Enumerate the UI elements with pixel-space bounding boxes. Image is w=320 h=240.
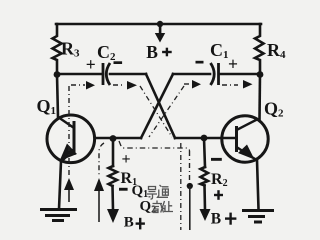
截 — [152, 201, 165, 213]
dashed path horizontal left (to C2) — [71, 84, 125, 86]
wire Q2 base horizontal — [175, 137, 235, 140]
wire C2 right plate to diagonal — [110, 73, 146, 76]
svg-text:R2: R2 — [211, 171, 228, 189]
Q1 emitter arrow — [60, 144, 78, 162]
wire Q2 collector — [258, 74, 261, 119]
capacitor C1 — [211, 63, 219, 85]
svg-text:+: + — [86, 55, 96, 75]
wire C1 left horizontal — [173, 73, 210, 76]
capacitor C2 — [103, 63, 110, 85]
node Q1 base — [110, 135, 117, 142]
wire diagonal C1-to-Q1base — [141, 74, 173, 138]
transistor Q2 — [222, 116, 268, 162]
label R1 minus — [119, 188, 128, 191]
svg-text:B: B — [211, 210, 221, 227]
wire R2 branch upper — [204, 138, 205, 167]
通 — [158, 185, 169, 197]
B+ top arrow — [155, 26, 165, 43]
wire Q1 collector — [57, 75, 58, 117]
导 — [147, 187, 157, 200]
resistor R1 — [109, 166, 118, 186]
wire Q1 emitter down — [59, 161, 61, 209]
node Q2 base — [201, 135, 208, 142]
dashed path horizontal right (to C1) — [184, 84, 238, 85]
dashed diagonal A (C2 path down right) — [140, 86, 181, 230]
止 — [164, 201, 173, 212]
label C1 minus — [196, 61, 204, 64]
svg-text:B: B — [146, 42, 158, 62]
svg-text:Q2: Q2 — [264, 99, 284, 120]
svg-text:B: B — [124, 215, 134, 231]
arrow right before C2 — [86, 81, 95, 90]
svg-text:Q1: Q1 — [132, 183, 149, 200]
wire Q1 base horizontal — [96, 137, 141, 140]
arrow up on Q1 path — [64, 178, 74, 190]
Q2 emitter arrow — [238, 145, 255, 160]
svg-text:C2: C2 — [97, 42, 116, 63]
svg-text:R4: R4 — [267, 40, 286, 61]
svg-text:C1: C1 — [210, 40, 229, 61]
svg-text:R3: R3 — [61, 38, 80, 59]
arrow right before R4 junction — [243, 80, 253, 89]
resistor R4 — [255, 24, 264, 73]
label R2 plus — [214, 190, 223, 200]
label C2 minus — [114, 61, 123, 64]
wire R1 branch upper — [112, 139, 115, 166]
svg-text:+: + — [228, 54, 238, 74]
R2 bottom arrow — [200, 209, 211, 221]
dashed path right vertical with dot — [189, 151, 191, 183]
wire Q2 emitter down — [257, 160, 259, 209]
resistor R3 — [53, 24, 62, 73]
wire R1 branch lower — [111, 186, 114, 210]
wire C1 right plate to R4 junction — [219, 73, 260, 76]
label R2 minus — [211, 158, 222, 161]
node R3/C2 — [54, 71, 61, 78]
wire top rail — [56, 23, 261, 26]
node dashed path dot — [187, 183, 193, 189]
hanzi 导通 (Q1 conducting) — [147, 185, 169, 199]
wire R3 junction to C2 — [57, 73, 101, 76]
ground right — [242, 211, 274, 223]
dashed current path left vertical through Q1 — [68, 86, 70, 177]
dashed elbow path to R2 side (y148 run) — [119, 141, 190, 151]
wire diagonal C2-to-Q2base — [146, 74, 175, 138]
resistor R2 — [201, 167, 209, 186]
node B+ top — [157, 21, 163, 27]
arrow right before C1 — [192, 80, 201, 89]
R1 bottom arrow — [107, 209, 119, 223]
svg-text:+: + — [122, 151, 131, 168]
hanzi 截止 (Q2 cut off) — [152, 201, 173, 213]
wire R2 branch lower — [203, 186, 206, 211]
svg-text:Q1: Q1 — [37, 96, 57, 117]
transistor Q1 — [47, 115, 95, 163]
node R4/C1 — [257, 71, 264, 78]
dashed path near R1 (up arrow) — [99, 143, 104, 177]
arrow right after C2 — [127, 81, 137, 90]
ground left — [40, 210, 77, 221]
dashed diagonal B (C1 path down left) — [149, 86, 184, 137]
